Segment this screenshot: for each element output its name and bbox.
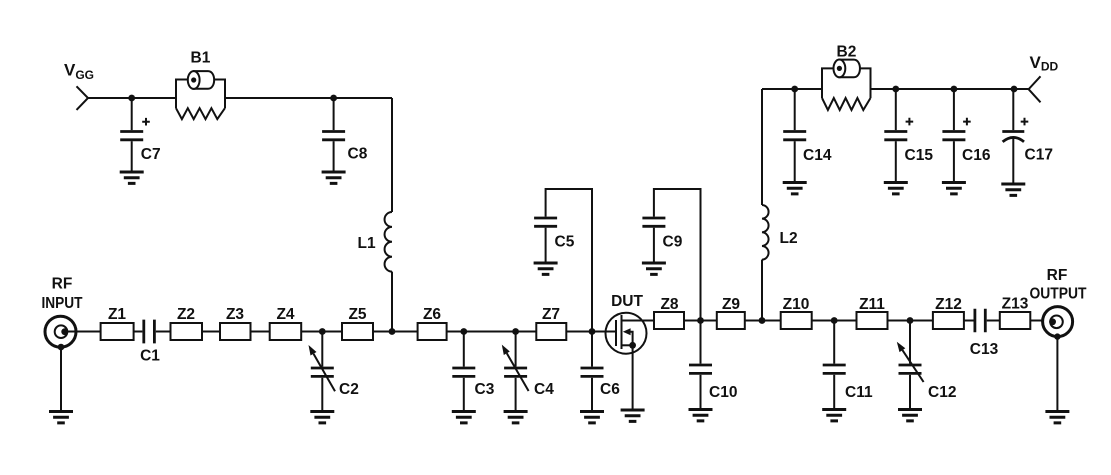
svg-text:C13: C13	[970, 341, 999, 358]
capacitor C16	[942, 89, 990, 181]
wire Z5-Z6	[373, 331, 418, 333]
transmission line Z7	[536, 306, 566, 340]
wire Z9-Z10	[745, 320, 781, 322]
capacitor C11	[823, 321, 873, 409]
svg-text:Z1: Z1	[108, 306, 126, 323]
node C14 junction	[791, 86, 798, 93]
transmission line Z5	[342, 306, 373, 340]
transmission line Z4	[270, 306, 302, 340]
svg-text:C16: C16	[962, 147, 991, 164]
wire VGG rail left	[88, 97, 176, 99]
svg-text:B2: B2	[837, 44, 857, 61]
VGG supply terminal	[77, 86, 89, 110]
svg-text:C4: C4	[534, 381, 554, 398]
svg-text:C3: C3	[475, 381, 495, 398]
ground (C6)	[580, 412, 604, 423]
ground (C3)	[452, 412, 476, 423]
ground (C2)	[310, 412, 334, 423]
ground (C9)	[642, 263, 666, 274]
svg-text:INPUT: INPUT	[42, 295, 83, 312]
VDD supply terminal	[1029, 76, 1041, 102]
wire Z4-Z5	[301, 331, 342, 333]
capacitor C1	[140, 320, 160, 365]
wire Z3-Z4	[251, 331, 270, 333]
ground (RF INPUT)	[49, 347, 73, 423]
svg-text:C17: C17	[1025, 147, 1053, 164]
ground (C15)	[884, 183, 908, 194]
wire Z13 to connector	[1030, 320, 1043, 322]
capacitor C6	[581, 332, 621, 411]
wire L1 to rail	[391, 272, 393, 332]
wire Z12-C13	[964, 320, 974, 322]
ground (C4)	[504, 412, 528, 423]
transmission line Z2	[171, 306, 203, 340]
wire Z11-Z12	[888, 320, 933, 322]
wire VDD rail left	[762, 88, 822, 90]
transmission line Z11	[857, 296, 888, 329]
ground (C5)	[534, 263, 558, 274]
inductor L1	[358, 212, 393, 272]
svg-text:Z6: Z6	[423, 306, 441, 323]
svg-text:Z10: Z10	[783, 296, 810, 313]
inductor L2	[762, 205, 798, 260]
svg-text:C12: C12	[928, 384, 956, 401]
capacitor C2 (variable)	[309, 332, 359, 411]
transmission line Z6	[418, 306, 447, 340]
wire VGG rail right	[225, 97, 392, 99]
wire Z10-Z11	[812, 320, 857, 322]
wire Z2-Z3	[202, 331, 220, 333]
node gate junction	[589, 328, 596, 335]
wire connector to Z1	[66, 331, 101, 333]
svg-text:C7: C7	[141, 146, 161, 163]
wire Z8-Z9	[684, 320, 717, 322]
capacitor C8	[322, 98, 368, 171]
connector RF INPUT	[45, 316, 76, 350]
capacitor C7	[120, 98, 160, 171]
svg-text:Z13: Z13	[1002, 296, 1029, 313]
svg-text:Z3: Z3	[226, 306, 244, 323]
transmission line Z1	[101, 306, 134, 340]
svg-text:OUTPUT: OUTPUT	[1030, 286, 1087, 303]
transistor DUT	[606, 293, 655, 409]
node C3 junction	[460, 328, 467, 335]
node C7 junction	[128, 95, 135, 102]
node RF INPUT label	[42, 276, 83, 313]
svg-text:Z12: Z12	[935, 296, 962, 313]
capacitor C14	[783, 89, 832, 181]
wire Z1-C1	[134, 331, 143, 333]
svg-text:Z11: Z11	[859, 296, 885, 313]
svg-text:L2: L2	[780, 230, 798, 247]
node C11 junction	[831, 317, 838, 324]
ground (C16)	[942, 183, 966, 194]
svg-text:Z9: Z9	[722, 296, 740, 313]
transmission line Z13	[1000, 296, 1031, 330]
wire VDD rail right	[871, 88, 1029, 90]
svg-text:RF: RF	[1047, 267, 1068, 284]
svg-text:C6: C6	[600, 381, 620, 398]
ground (C10)	[689, 410, 713, 421]
svg-text:DUT: DUT	[611, 293, 643, 310]
ground (C14)	[783, 183, 807, 194]
node RF OUTPUT label	[1030, 267, 1087, 303]
svg-text:C8: C8	[348, 146, 368, 163]
node C9/C10 junction	[697, 317, 704, 324]
svg-text:C5: C5	[555, 234, 575, 251]
svg-text:C14: C14	[803, 147, 832, 164]
wire Z6-Z7	[447, 331, 537, 333]
wire C1-Z2	[156, 331, 171, 333]
svg-text:RF: RF	[52, 276, 73, 293]
svg-text:C10: C10	[709, 384, 737, 401]
ground (C8)	[322, 172, 346, 183]
transmission line Z10	[781, 296, 812, 329]
ferrite bead B1	[176, 50, 225, 120]
svg-text:C9: C9	[663, 234, 683, 251]
wire C13-Z13	[987, 320, 1000, 322]
capacitor C5	[534, 218, 575, 262]
ground (C7)	[120, 172, 144, 183]
transmission line Z12	[933, 296, 964, 329]
svg-text:C1: C1	[140, 348, 160, 365]
capacitor C15	[884, 89, 933, 181]
svg-text:B1: B1	[191, 50, 211, 67]
wire L2 to rail	[761, 260, 763, 321]
node C12 junction	[907, 317, 914, 324]
node C15 junction	[892, 86, 899, 93]
capacitor C9	[642, 218, 682, 262]
svg-text:Z5: Z5	[348, 306, 366, 323]
capacitor C12 (variable)	[897, 321, 957, 409]
capacitor C10	[689, 321, 737, 409]
svg-text:C15: C15	[905, 147, 934, 164]
wire Z7 to DUT gate	[566, 331, 616, 333]
ferrite bead B2	[822, 44, 871, 111]
svg-text:Z2: Z2	[177, 306, 195, 323]
svg-text:C2: C2	[339, 381, 359, 398]
svg-text:Z7: Z7	[542, 306, 560, 323]
svg-text:Z8: Z8	[660, 296, 678, 313]
capacitor C13	[970, 309, 999, 358]
node C17 junction	[1011, 86, 1018, 93]
node C4 junction	[512, 328, 519, 335]
capacitor C17 (polarized)	[1002, 89, 1053, 183]
connector RF OUTPUT	[1043, 307, 1073, 340]
node VDD label	[1030, 53, 1059, 74]
ground (C12)	[898, 410, 922, 421]
capacitor C3	[452, 332, 494, 411]
wire C9 riser	[654, 189, 701, 321]
node C2 junction	[319, 328, 326, 335]
svg-text:Z4: Z4	[276, 306, 294, 323]
ground (C11)	[822, 410, 846, 421]
transmission line Z8	[654, 296, 684, 329]
node VGG label	[64, 61, 94, 83]
node L1/rail junction	[389, 328, 396, 335]
svg-text:C11: C11	[845, 384, 873, 401]
wire L1 riser	[391, 98, 393, 212]
ground (DUT source)	[621, 410, 645, 421]
transmission line Z9	[717, 296, 745, 329]
svg-text:L1: L1	[358, 235, 376, 252]
ground (C17)	[1001, 184, 1025, 195]
ground (RF OUTPUT)	[1045, 337, 1069, 423]
wire C5 riser	[546, 189, 592, 332]
node C16 junction	[951, 86, 958, 93]
capacitor C4 (variable)	[502, 332, 554, 411]
wire L2 riser top	[761, 89, 763, 205]
transmission line Z3	[220, 306, 251, 340]
node C8 junction	[330, 95, 337, 102]
node L2/rail junction	[759, 317, 766, 324]
